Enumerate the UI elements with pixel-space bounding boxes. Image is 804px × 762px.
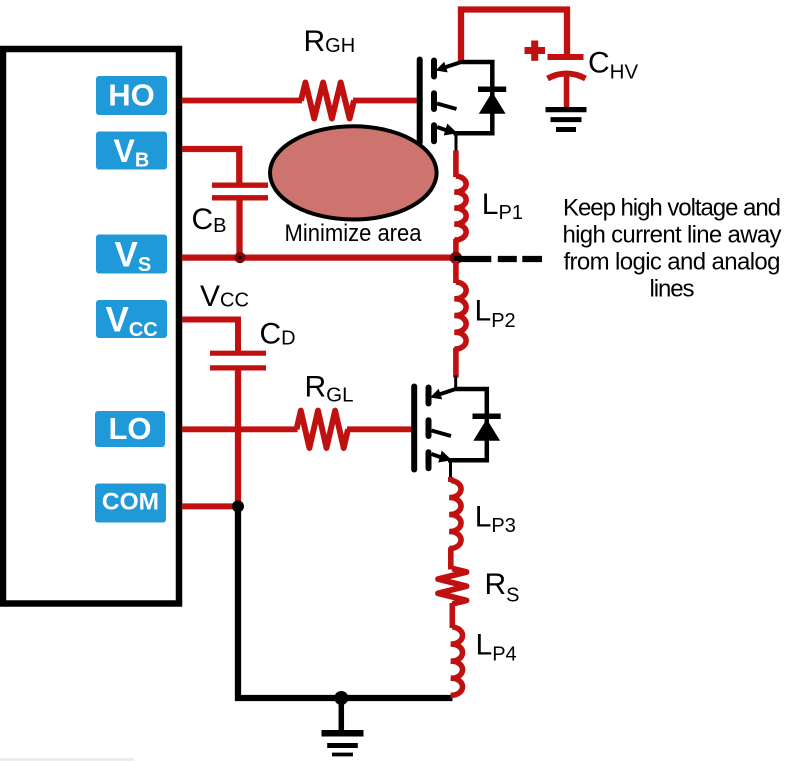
junction VS-LP bbox=[450, 252, 462, 264]
inductor LP4 bbox=[451, 627, 463, 695]
ellipse Minimize area bbox=[270, 126, 437, 219]
wire VB to CB bbox=[182, 149, 239, 184]
wire COM bbox=[182, 503, 238, 509]
resistor RGL bbox=[297, 411, 349, 448]
pin label LO bbox=[95, 411, 165, 447]
resistor RGH bbox=[301, 83, 354, 119]
capacitor CB bbox=[212, 185, 268, 255]
pin label VCC bbox=[96, 300, 167, 341]
wire COM to ground rail bbox=[238, 509, 453, 698]
capacitor CD bbox=[210, 353, 266, 368]
wire CD to COM junction bbox=[235, 368, 241, 507]
dashed line bbox=[454, 256, 542, 262]
junction ground rail bbox=[334, 691, 348, 705]
transistor Q2 (low side) bbox=[414, 387, 487, 480]
svg-text:Keep high voltage and: Keep high voltage and bbox=[563, 195, 781, 222]
svg-text:HO: HO bbox=[108, 77, 155, 112]
wire RS to LP4 bbox=[449, 603, 455, 628]
pin label COM bbox=[95, 484, 166, 523]
svg-text:from logic and analog: from logic and analog bbox=[564, 249, 781, 276]
svg-text:COM: COM bbox=[102, 488, 159, 515]
wire LO to RGL bbox=[182, 426, 298, 432]
wire RGH to Q1 gate bbox=[353, 98, 417, 104]
top rail wire to CHV bbox=[461, 10, 567, 63]
pin label VB bbox=[96, 132, 167, 172]
wire VS rail bbox=[182, 254, 454, 260]
wire HO to RGH bbox=[182, 98, 302, 104]
junction COM-CD bbox=[232, 500, 244, 512]
inductor LP2 bbox=[454, 282, 466, 349]
faint scan line bottom left bbox=[0, 758, 134, 761]
ground symbol bottom bbox=[339, 698, 345, 731]
resistor RS bbox=[438, 569, 467, 605]
wire Q2 source to LP3 bbox=[448, 477, 454, 482]
inductor LP1 bbox=[454, 176, 466, 240]
svg-text:Minimize area: Minimize area bbox=[285, 220, 422, 247]
svg-text:LO: LO bbox=[108, 411, 151, 446]
gate driver IC box bbox=[3, 49, 179, 604]
svg-text:high current line away: high current line away bbox=[563, 222, 782, 249]
wire LP1 to VS junction bbox=[453, 239, 459, 255]
wire LP2 to Q2 drain bbox=[453, 348, 459, 378]
junction VS-CB bbox=[234, 252, 245, 263]
pin label VS bbox=[96, 235, 167, 277]
diode D1 (body diode) bbox=[478, 89, 506, 113]
diode D2 (body diode) bbox=[473, 416, 501, 440]
wire RGL to Q2 gate bbox=[347, 426, 411, 432]
wire VS junction to LP2 bbox=[453, 261, 459, 283]
wire VCC to CD bbox=[182, 320, 238, 352]
ground CHV bbox=[546, 107, 587, 112]
svg-text:lines: lines bbox=[650, 276, 695, 303]
annotation keep-away text bbox=[563, 195, 782, 303]
transistor Q1 (high side) bbox=[420, 60, 493, 153]
capacitor CHV bbox=[525, 41, 586, 109]
pin label HO bbox=[96, 76, 167, 115]
inductor LP3 bbox=[449, 481, 461, 549]
wire stub to Q2 drain bbox=[454, 376, 457, 390]
wire Q1 source to LP1 bbox=[453, 151, 459, 178]
wire LP3 to RS bbox=[448, 548, 454, 570]
